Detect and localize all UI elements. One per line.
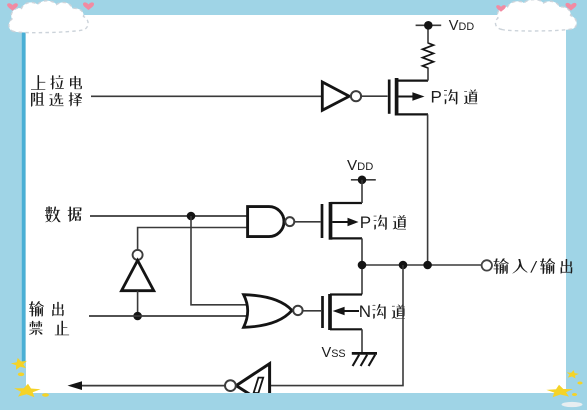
label 输出禁止 line 2 — [29, 321, 69, 336]
power VDD terminal (top) tick — [416, 24, 442, 26]
wire: I/O node down to input buffer — [271, 265, 403, 386]
P-channel MOSFET (output driver) channel bar — [329, 202, 333, 240]
N-channel MOSFET substrate arrow — [344, 310, 359, 312]
input buffer (tri-state, pointing left) — [236, 364, 269, 407]
N-channel MOSFET channel bar — [328, 294, 332, 330]
junction dot (pull-up tap) — [423, 261, 432, 270]
inverter bubble (output-disable inverter) — [133, 250, 143, 260]
label 沟道 (middle P-channel) — [374, 215, 406, 230]
P-channel MOSFET (driver) substrate arrow — [332, 221, 349, 223]
wire: output-disable to NOR input B — [89, 315, 250, 317]
ground symbol — [352, 352, 377, 355]
terminal circle 输入/输出 pad — [482, 260, 492, 270]
wire: VDD to resistor — [427, 25, 429, 43]
svg-text:VSS: VSS — [322, 345, 346, 361]
wire: inverter to P-channel gate — [361, 95, 387, 97]
wire: pull-up select input to inverter — [91, 95, 322, 97]
svg-text:P: P — [360, 213, 371, 232]
wire: data branch down to NOR input A — [191, 216, 250, 305]
input buffer output bubble — [225, 380, 236, 391]
N-channel MOSFET drain lead — [330, 293, 362, 295]
P-channel MOSFET drain lead — [397, 113, 428, 115]
inverter (pull-up control buffer) — [322, 82, 349, 110]
input buffer hysteresis mark — [254, 378, 264, 393]
inverter output bubble — [351, 91, 361, 101]
NAND output bubble — [285, 217, 294, 226]
P-channel MOSFET substrate arrow — [398, 96, 414, 98]
N-channel MOSFET gate bar — [321, 296, 324, 328]
wire: data to NAND input A — [90, 215, 248, 217]
wire: resistor to MOSFET source — [427, 68, 429, 81]
label 沟道 (N-channel) — [373, 304, 405, 319]
wire: driver drain to I/O node — [361, 238, 363, 294]
junction dot at VDD (middle) — [358, 176, 367, 185]
label 上拉电阻选择 (pull-up resistor select), line 1 — [31, 75, 82, 90]
wire: N-channel source to ground — [361, 329, 363, 353]
P-channel MOSFET (internal pull-up) gate bar — [388, 80, 391, 114]
label 上拉电阻选择 line 2 — [31, 92, 82, 106]
junction dot on data line — [187, 212, 196, 221]
wire: inverter input from output-disable line — [137, 291, 139, 316]
wire: VDD to driver source — [361, 180, 363, 203]
NAND gate — [248, 207, 284, 237]
label 数据 (data) — [45, 206, 81, 222]
resistor (pull-up) — [423, 43, 434, 68]
power VDD terminal (middle) tick — [351, 179, 376, 181]
P-channel MOSFET source lead — [397, 79, 428, 81]
inverter (output-disable, pointing up) — [122, 260, 154, 290]
wire: buffer output to internal bus arrow — [80, 385, 225, 387]
N-channel MOSFET source lead — [330, 328, 362, 330]
junction dot (input buffer tap) — [399, 261, 408, 270]
P-channel MOSFET channel bar — [395, 78, 399, 116]
junction dot (driver drain on I/O line) — [358, 261, 367, 270]
junction dot on output-disable line — [133, 312, 142, 321]
label 输入/输出 (input/output) — [494, 258, 573, 274]
wire: NAND to P-channel gate — [295, 221, 321, 223]
svg-text:N: N — [359, 302, 371, 321]
wire: pull-up drain down to I/O node — [427, 114, 429, 265]
arrowhead to internal bus — [68, 381, 83, 390]
P-channel MOSFET (driver) source lead — [331, 202, 363, 204]
label 输出禁止 (output disable) line 1 — [29, 301, 64, 316]
svg-text:P: P — [431, 87, 442, 106]
wire: inverted output-disable to NAND input B — [138, 228, 248, 250]
P-channel MOSFET (driver) drain lead — [331, 237, 363, 239]
wire: NOR to N-channel gate — [302, 310, 321, 312]
NOR output bubble — [293, 306, 302, 315]
P-channel MOSFET (output driver) gate bar — [321, 204, 324, 238]
junction dot at VDD — [424, 21, 433, 30]
node: I/O line — [362, 264, 482, 266]
label 沟道 (upper P-channel) — [444, 89, 477, 105]
NOR gate — [244, 295, 292, 328]
svg-text:VDD: VDD — [449, 18, 475, 34]
